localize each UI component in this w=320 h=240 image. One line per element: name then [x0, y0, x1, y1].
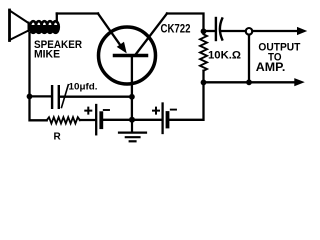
junction dot output bottom-left	[201, 80, 207, 86]
wire collector top to node	[167, 14, 204, 30]
svg-text:CK722: CK722	[161, 22, 191, 36]
resistor 10K zigzag	[200, 34, 207, 70]
base bar	[115, 54, 147, 58]
collector lead	[136, 14, 167, 55]
transistor Q1 CK722 circle	[99, 27, 156, 84]
label SPEAKER MIKE	[34, 39, 82, 61]
emitter lead (arrow into base)	[98, 14, 123, 50]
junction dot left rail	[27, 94, 33, 100]
svg-text:AMP.: AMP.	[256, 60, 285, 74]
leader line to 10ufd label	[62, 85, 69, 108]
wire R to left corner and up	[30, 33, 47, 120]
ground symbol	[119, 120, 146, 141]
wire battery B1 to resistor R	[80, 119, 95, 121]
battery B1	[85, 105, 109, 134]
wire node down to battery rail	[169, 84, 204, 120]
wire battery B2 to ground node	[134, 119, 161, 121]
capacitor C1 plates	[215, 18, 217, 40]
ground junction dot	[129, 117, 135, 123]
svg-text:10μfd.: 10μfd.	[69, 82, 98, 93]
battery B2	[153, 104, 176, 134]
speaker horn	[10, 10, 29, 41]
wire ground node to battery B1	[103, 119, 130, 121]
wire top-left horizontal	[57, 12, 98, 14]
capacitor C2 10ufd plates	[52, 86, 59, 108]
svg-text:R: R	[54, 132, 62, 143]
output top wire with arrow	[252, 30, 298, 32]
junction dot base on rail	[129, 94, 135, 100]
label OUTPUT TO AMP	[256, 42, 301, 75]
junction dot collector node	[201, 28, 207, 34]
resistor R zigzag	[47, 117, 80, 123]
wire ring terminal down	[248, 35, 250, 80]
base lead	[131, 57, 133, 118]
junction dot output bottom-right	[246, 79, 252, 85]
wire resistor bottom to node	[202, 71, 204, 80]
svg-text:MIKE: MIKE	[34, 49, 60, 61]
wire node to capacitor C1	[204, 30, 215, 32]
speaker voice coil	[30, 21, 59, 33]
terminal ring junction	[246, 28, 253, 35]
upper rail right segment	[60, 96, 132, 98]
svg-text:10K.Ω: 10K.Ω	[208, 49, 241, 61]
upper rail left segment	[30, 95, 51, 97]
wire capacitor to ring terminal	[222, 30, 246, 32]
wire coil to top rail	[56, 14, 58, 23]
output bottom wire with arrow	[204, 81, 296, 83]
